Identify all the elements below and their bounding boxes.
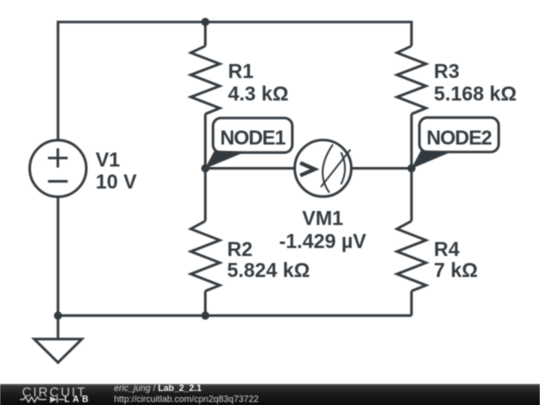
svg-text:VM1: VM1 bbox=[302, 208, 343, 230]
svg-text:LAB: LAB bbox=[64, 394, 91, 404]
svg-text:R1: R1 bbox=[228, 61, 254, 83]
svg-text:R4: R4 bbox=[434, 239, 460, 261]
svg-text:7 kΩ: 7 kΩ bbox=[434, 260, 478, 282]
svg-text:10 V: 10 V bbox=[96, 172, 138, 194]
svg-text:R2: R2 bbox=[227, 239, 253, 261]
svg-text:4.3 kΩ: 4.3 kΩ bbox=[228, 83, 289, 105]
svg-text:5.168 kΩ: 5.168 kΩ bbox=[434, 83, 517, 105]
svg-text:NODE1: NODE1 bbox=[220, 128, 286, 150]
svg-text:R3: R3 bbox=[434, 61, 460, 83]
svg-text:5.824 kΩ: 5.824 kΩ bbox=[227, 260, 310, 282]
svg-text:eric_jung / Lab_2_2.1: eric_jung / Lab_2_2.1 bbox=[114, 383, 202, 393]
svg-text:V1: V1 bbox=[96, 150, 120, 172]
svg-text:NODE2: NODE2 bbox=[427, 127, 493, 149]
svg-text:http://circuitlab.com/cpn2q83q: http://circuitlab.com/cpn2q83q73722 bbox=[114, 394, 259, 404]
svg-text:-1.429 µV: -1.429 µV bbox=[279, 231, 367, 253]
